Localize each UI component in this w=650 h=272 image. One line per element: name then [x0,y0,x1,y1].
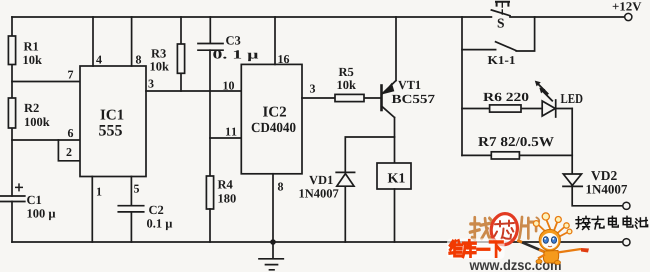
value R2 100k [25,117,50,126]
value R4 180 [219,194,236,202]
wire VD1 branch [345,137,394,242]
relay K1 [377,163,411,242]
pin 3 IC1 [148,80,153,88]
label IC2 [263,107,286,117]
label C2 [149,206,163,214]
resistor R6 [490,105,521,112]
label S [498,19,504,28]
switch K1-1 [462,17,535,51]
resistor R7 [491,152,519,159]
wire bottom rail [12,241,623,243]
IC U2 CD4040 body [241,64,302,173]
wire pin2 notch [58,140,80,161]
label R4 [218,180,233,188]
IC U1 555 timer body [80,66,146,177]
pin 1 IC1 [97,188,101,196]
wire C3 to R4 [209,50,211,176]
pin 11 IC2 [226,128,236,136]
wire R7 row [462,154,572,156]
value R5 10k [338,80,356,89]
pin 6 IC1 [68,129,73,137]
watermark www.dzsc.com [469,259,560,270]
LED [535,81,556,117]
value R3 10k [151,62,169,71]
label R5 [339,68,354,76]
label K1 [388,173,405,182]
wire left rail [11,17,13,242]
label R6 220 [483,93,528,101]
label VD2 [591,171,617,180]
wire pin8 [131,17,133,66]
ground [259,242,283,270]
polarity + of C1 [15,183,23,191]
pin 8 IC1 [136,56,141,64]
wire pin16 [274,17,276,64]
wire pin1 [91,177,93,243]
value VD2 1N4007 [587,185,628,194]
value R1 10k [24,55,42,64]
capacitor C2 [118,206,143,212]
resistor R2 [8,98,15,128]
pin 16 IC2 [278,55,289,63]
value C2 0.1u [147,219,172,230]
value IC2 CD4040 [252,123,296,132]
watermark red circle magnifier with 芯 [489,212,520,247]
switch S [491,2,510,16]
wire pin3 to pin10 [146,90,241,92]
label R2 [24,104,39,112]
pin 5 IC1 [134,185,139,193]
watermark 找芯片 [470,217,539,240]
text 接充电电池 battery label (drawn strokes) [576,216,648,229]
transistor Q1 VT1 [382,17,397,163]
value VT1 BC557 [392,95,435,103]
label R3 [151,49,166,57]
diode VD2 [563,174,623,206]
capacitor C1 [1,196,25,202]
label R1 [24,42,38,50]
wire R6 row [462,108,572,110]
watermark 维库一下 [447,239,505,260]
resistor R5 [335,94,364,101]
resistor R4 [206,176,213,242]
label LED [561,94,583,103]
value C3 0.1u [213,50,258,61]
wire pin5 [130,177,132,243]
pin 8 IC2 [278,183,283,191]
pin 7 IC1 [68,71,73,79]
label VT1 [398,81,420,89]
label VD1 [309,176,333,184]
resistor R3 [177,17,184,91]
wire pin7 [12,81,80,83]
pin number labels [67,55,316,195]
value C1 100u [28,209,56,220]
capacitor C3 [198,17,223,50]
wire pin3 ic2 to R5 [302,97,382,99]
label C3 [226,36,240,44]
node battery minus terminal [623,239,630,246]
label R7 82/0.5W [478,137,554,146]
label C1 [27,196,41,204]
watermark mascot [517,213,589,265]
wire pin8 ic2 [272,174,274,242]
node battery plus terminal [623,202,630,209]
pin 3 IC2 [310,85,315,93]
pin 4 IC1 [96,56,102,64]
wire pin6 [12,139,80,141]
wire LED corner down [571,109,573,175]
wire branch x462 [461,17,463,155]
wire pin4 [92,17,94,66]
label K1-1 [488,56,515,64]
wire top rail right of S [510,16,625,18]
node +12V terminal [625,13,632,20]
value VD1 1N4007 [300,189,339,197]
pin 2 IC1 [67,148,72,156]
label IC1 [101,110,124,120]
label +12V [613,2,642,10]
wire pin11 [210,137,241,139]
diode VD1 [336,172,354,186]
pin 10 IC2 [223,82,234,90]
resistor R1 [8,36,15,65]
wire top rail left of S [12,16,491,18]
node ground junction dot [270,239,276,245]
value IC1 555 [99,125,122,136]
